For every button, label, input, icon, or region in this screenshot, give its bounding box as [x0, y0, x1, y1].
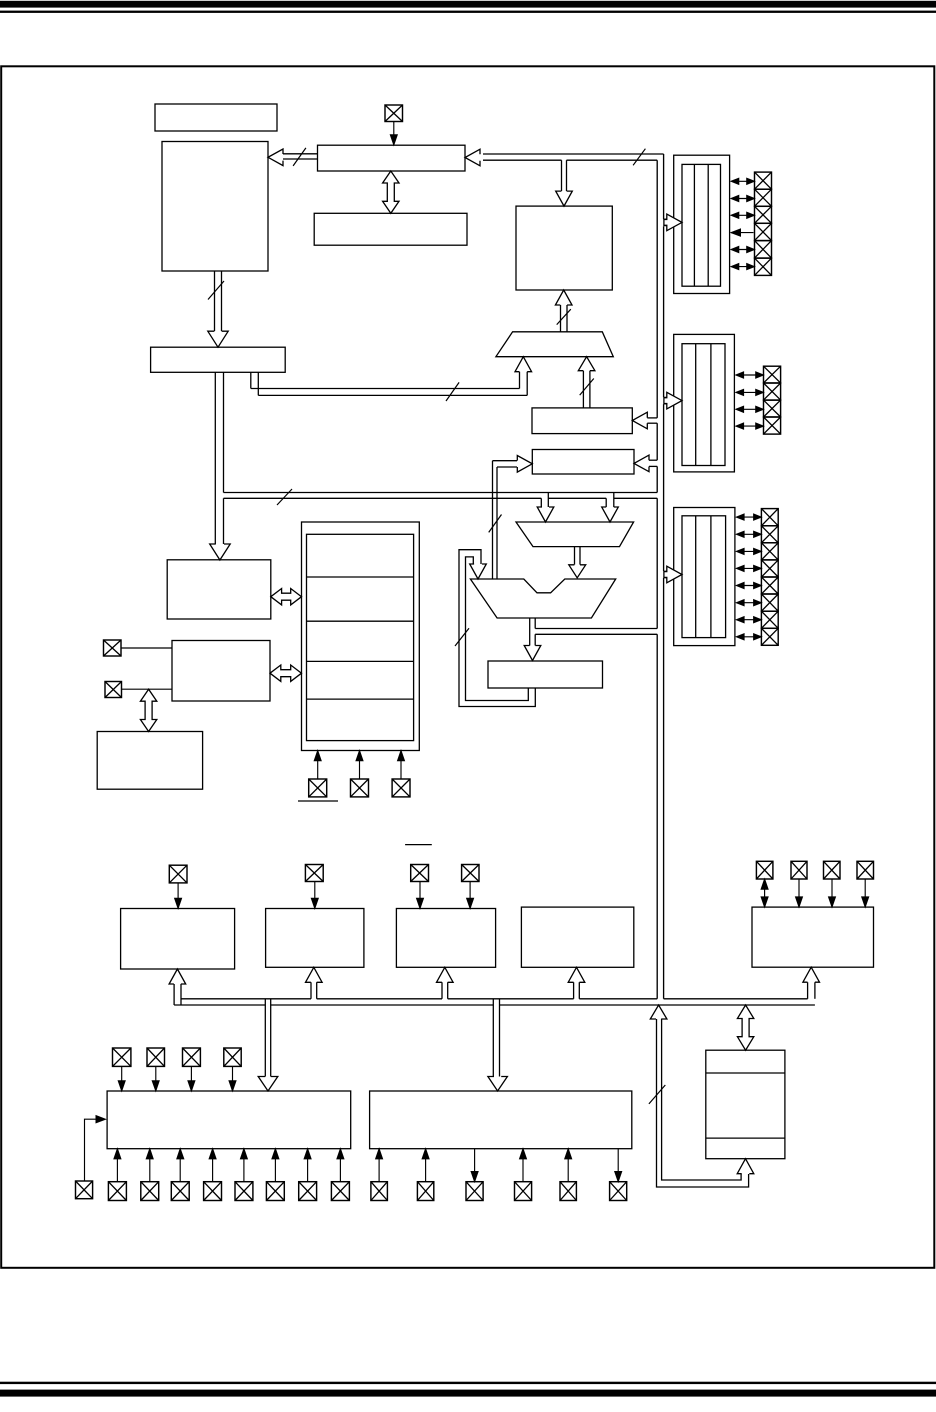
oscillator start-up block box: [97, 732, 202, 790]
wire pin 2 into A/D box: [155, 1066, 157, 1091]
port C pin arrow 8: [737, 636, 760, 638]
wire bus to FSR: [632, 412, 647, 429]
serial pin 4 below serial box: [515, 1182, 532, 1201]
wire bus branch down into RAM top: [561, 160, 563, 191]
wire PC to flash (13-bit address): [268, 149, 283, 166]
wire analog pin 3 into A/D box: [179, 1149, 181, 1182]
wire W register feedback into ALU: [466, 557, 529, 701]
wire reference pin hook into A/D box: [85, 1119, 98, 1181]
wire PC to stack (bidirectional): [383, 171, 399, 213]
wire OSC2 to timing generation: [122, 688, 173, 690]
pin VDD: [351, 779, 369, 797]
data EEPROM box (3 rows): [706, 1050, 785, 1159]
peripheral box 3 (timer2): [396, 909, 495, 968]
EEPROM row divider 1: [706, 1072, 785, 1074]
port C pin arrow 4: [737, 567, 760, 569]
device label box: [155, 104, 277, 131]
program counter box: [318, 145, 466, 171]
wire VSS to supervisor block: [400, 751, 402, 780]
port A outer box: [674, 155, 730, 293]
indirect address wire FSR to address mux: [582, 371, 584, 408]
wire decode box to timer block (bidirectional): [271, 589, 302, 605]
RAM address wire mux to RAM: [560, 305, 562, 332]
port B pin arrow 4: [737, 425, 763, 427]
horizontal data bus pair: [181, 998, 311, 1000]
wire pin to peripheral 1: [177, 883, 179, 909]
port B inner box: [682, 344, 725, 466]
port A pin arrow 5: [732, 249, 754, 251]
analog input pin 1 below A/D box: [108, 1182, 126, 1201]
supervisor block outer box (power-up timer etc): [302, 522, 420, 751]
wire data EEPROM to bus (arrow up at bus): [650, 1005, 667, 1019]
analog input pin 5 below A/D box: [235, 1182, 253, 1201]
pin 2 above A/D box: [147, 1048, 165, 1066]
pin 4 above peripheral 5: [857, 861, 874, 879]
wire timing box to timer block (bidirectional): [270, 665, 302, 681]
wire bus to port A: [664, 218, 667, 220]
status register box: [532, 450, 634, 475]
wire serial pin 6: [617, 1149, 619, 1182]
supervisor block inner box with rows: [307, 534, 414, 740]
8-level stack box: [314, 213, 467, 245]
port B pin arrow 1: [737, 374, 763, 376]
port C pin arrow 7: [737, 619, 760, 621]
bus-width slash on direct address wire: [446, 382, 459, 401]
page bottom rule (thin): [0, 1382, 936, 1384]
drop into ALU mux right input: [605, 498, 607, 508]
page top rule (thick): [0, 1, 936, 8]
port A inner box: [682, 164, 721, 286]
MCLR active-low underline: [298, 800, 338, 802]
bus drop to A/D converter block: [264, 999, 266, 1077]
pin 4 above A/D box: [224, 1048, 241, 1066]
literal/opcode wire IR-path to ALU mux and bus: [224, 492, 658, 494]
peripheral box 4 (A/D): [521, 907, 633, 967]
bus-width slash on RAM address wire: [557, 309, 571, 324]
serial pin 6 below serial box: [610, 1182, 627, 1201]
port A pin arrow 2: [732, 198, 754, 200]
bus riser to peripheral 1: [173, 984, 175, 1006]
bus riser to peripheral 4: [573, 982, 575, 999]
pin T0CKI above peripheral 1: [169, 865, 187, 883]
wire pin 4 into A/D box: [232, 1066, 234, 1091]
wire mux output into ALU: [574, 547, 576, 565]
serial pin 2 below serial box: [417, 1182, 433, 1201]
port B inner divider 1: [695, 344, 697, 466]
wire pin to peripheral 2: [314, 882, 316, 909]
port C outer box: [674, 508, 735, 646]
wire ALU output to data bus: [535, 628, 657, 630]
port C pin arrow 3: [737, 550, 760, 552]
port C pin arrow 5: [737, 585, 760, 587]
page top rule (thin): [0, 11, 936, 13]
row divider 4: [307, 698, 414, 700]
instruction decode and control box: [167, 560, 271, 619]
wire serial pin 1: [378, 1149, 380, 1182]
serial pin 3 below serial box: [466, 1182, 483, 1201]
wire analog pin 5 into A/D box: [243, 1149, 245, 1182]
pin OSC1: [104, 640, 122, 656]
page bottom rule (thick): [0, 1390, 936, 1397]
row divider 1: [307, 576, 414, 578]
port B pin arrow 3: [737, 408, 763, 410]
wire serial pin 5: [567, 1149, 569, 1182]
serial/CCP long box: [370, 1091, 632, 1149]
wire bus to data EEPROM (bidirectional): [737, 1005, 753, 1050]
wire oscillator block vertical (bidirectional): [140, 689, 156, 731]
bus riser to peripheral 2: [310, 982, 312, 999]
wire bus to port C: [664, 570, 667, 572]
port A pin arrow 1: [732, 180, 754, 182]
pin 2 above peripheral 5: [791, 861, 807, 879]
pin 1 above peripheral 3: [411, 865, 429, 882]
pin 2 above peripheral 3: [462, 865, 479, 882]
RAM file registers box: [516, 206, 612, 290]
wire pin3 to peripheral 5: [831, 879, 833, 907]
timing generation box: [172, 641, 270, 702]
address mux (trapezoid): [496, 332, 613, 357]
main data bus vertical pair: [656, 160, 658, 418]
flash program memory box: [162, 142, 268, 272]
wire VDD to supervisor block: [359, 751, 361, 780]
wire status register to ALU: [493, 460, 518, 462]
bus drop to serial block: [492, 999, 494, 1078]
port A pin arrow 3: [732, 214, 754, 216]
serial pin 5 below serial box: [560, 1182, 576, 1201]
analog input pin 8 below A/D box: [331, 1182, 349, 1201]
wire bus to PC (right side): [465, 149, 480, 166]
pin 3 above peripheral 5: [824, 861, 841, 879]
bus-width slash on EEPROM wire: [649, 1085, 665, 1104]
wire MCLR to supervisor block: [317, 751, 319, 780]
wire pin4 to peripheral 5: [864, 879, 866, 907]
wire analog pin 1 into A/D box: [116, 1149, 118, 1182]
bus-width slash on W feedback wire: [455, 628, 469, 646]
instruction decode wire IR down to decode box: [214, 372, 216, 544]
instruction register box: [151, 347, 286, 372]
bus-width slash on indirect address wire: [580, 379, 594, 396]
wire pin1 to peripheral 5 (bidirectional): [764, 879, 766, 907]
EEPROM row divider 2: [706, 1137, 785, 1139]
analog input pin 3 below A/D box: [171, 1182, 189, 1201]
W register box: [488, 661, 603, 688]
row divider 3: [307, 660, 414, 662]
bus-width slash on status-ALU wire: [489, 515, 502, 533]
wire analog pin 6 into A/D box: [274, 1149, 276, 1182]
drop into ALU mux left input: [540, 498, 542, 508]
bus-width slash on PC-to-flash wire: [293, 148, 306, 166]
bus-width slash on literal wire: [277, 489, 292, 505]
pin 1 above A/D box: [113, 1048, 131, 1066]
port C inner divider 1: [695, 516, 697, 638]
wire ALU output to W register: [529, 618, 531, 646]
peripheral box 5 (serial port): [752, 907, 874, 967]
wire serial pin 2: [425, 1149, 427, 1182]
port A inner divider 2: [707, 164, 709, 286]
port C inner box: [682, 516, 726, 638]
direct address wire IR to address mux: [250, 372, 252, 388]
serial pin 1 below serial box: [371, 1182, 388, 1201]
program bus wire flash to instruction register: [214, 271, 216, 331]
wire pin2 to peripheral 5: [798, 879, 800, 907]
bus riser to peripheral 3: [441, 982, 443, 999]
bus-width slash on program bus: [208, 281, 224, 300]
pin 1 above peripheral 5: [756, 861, 773, 879]
wire OSC1 to timing generation: [121, 647, 172, 649]
wire analog pin 2 into A/D box: [149, 1149, 151, 1182]
analog input pin 2 below A/D box: [141, 1182, 159, 1201]
port B pin arrow 2: [737, 391, 763, 393]
wire pin1 to peripheral 3: [419, 882, 421, 909]
orphan label underline: [405, 844, 432, 846]
wire analog pin 4 into A/D box: [212, 1149, 214, 1182]
analog input pin 7 below A/D box: [299, 1182, 317, 1201]
wire bus to status register: [634, 455, 649, 472]
port A inner divider 1: [693, 164, 695, 286]
wire pin 3 into A/D box: [190, 1066, 192, 1091]
analog input pin 4 below A/D box: [204, 1182, 222, 1201]
port C pin arrow 6: [737, 602, 760, 604]
reference pin (bottom left): [76, 1181, 93, 1199]
row divider 2: [307, 620, 414, 622]
peripheral box 2 (timer1): [266, 909, 364, 968]
wire bus to port B: [664, 396, 667, 398]
pin MCLR: [309, 779, 327, 797]
wire serial pin 3: [474, 1149, 476, 1182]
pin X1 (clock input): [385, 105, 403, 122]
port B inner divider 2: [710, 344, 712, 466]
port A pin arrow 4: [731, 232, 754, 234]
port C pin column (8 crossed boxes): [761, 509, 778, 526]
ALU input mux (trapezoid): [516, 522, 634, 547]
pin above peripheral 2: [305, 865, 323, 882]
bus riser to peripheral 5: [807, 982, 809, 999]
port C inner divider 2: [710, 516, 712, 638]
port C pin arrow 2: [737, 533, 760, 535]
peripheral box 1 (timer0): [121, 909, 235, 970]
wire analog pin 8 into A/D box: [339, 1149, 341, 1182]
port B pin column (4 crossed boxes): [764, 366, 781, 383]
port A pin arrow 6: [732, 266, 754, 268]
pin 3 above A/D box: [183, 1048, 201, 1066]
pin OSC2: [105, 682, 122, 698]
bus-width slash on bus-to-PC wire: [633, 149, 645, 166]
ALU (notched trapezoid): [470, 579, 615, 618]
pin VSS: [392, 779, 410, 797]
port A pin column (6 crossed boxes): [755, 172, 772, 189]
port B outer box: [674, 334, 735, 472]
wire pin 1 into A/D box: [121, 1066, 123, 1091]
A/D converter long box: [107, 1091, 351, 1149]
analog input pin 6 below A/D box: [266, 1182, 284, 1201]
wire X1 to program counter: [393, 122, 395, 146]
port C pin arrow 1: [737, 516, 760, 518]
wire pin2 to peripheral 3: [469, 882, 471, 909]
FSR register box: [532, 408, 632, 434]
wire serial pin 4: [522, 1149, 524, 1182]
wire analog pin 7 into A/D box: [307, 1149, 309, 1182]
